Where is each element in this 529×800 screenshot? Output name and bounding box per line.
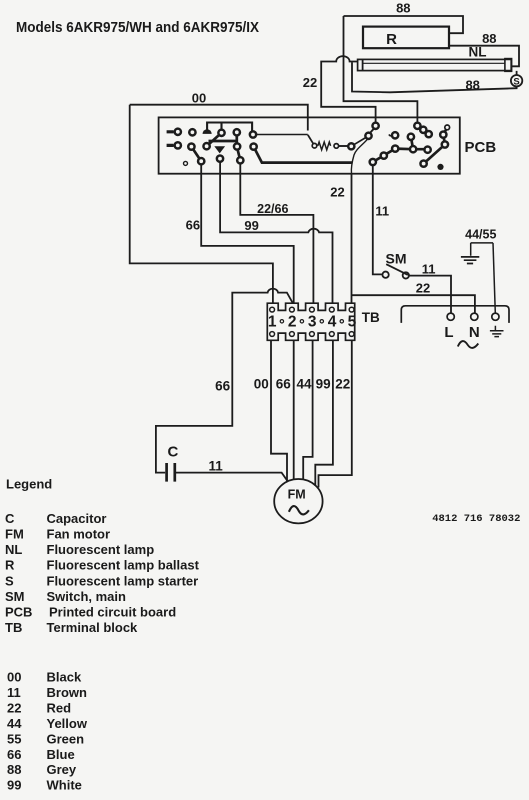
- svg-text:SM: SM: [386, 251, 407, 267]
- svg-text:Black: Black: [47, 670, 82, 685]
- svg-text:Yellow: Yellow: [47, 716, 88, 731]
- svg-text:Models 6AKR975/WH and 6AKR975/: Models 6AKR975/WH and 6AKR975/IX: [16, 19, 259, 36]
- svg-text:22: 22: [303, 75, 317, 90]
- svg-text:Grey: Grey: [47, 762, 77, 777]
- svg-text:88: 88: [7, 762, 21, 777]
- svg-text:88: 88: [482, 31, 496, 46]
- svg-text:TB: TB: [362, 310, 380, 325]
- svg-text:5: 5: [348, 314, 357, 331]
- svg-text:Blue: Blue: [47, 747, 75, 762]
- svg-text:44: 44: [296, 376, 312, 391]
- svg-text:55: 55: [7, 731, 21, 746]
- svg-text:66: 66: [186, 218, 200, 233]
- svg-text:Fan motor: Fan motor: [47, 527, 111, 542]
- svg-text:11: 11: [422, 262, 436, 277]
- svg-text:SM: SM: [5, 589, 25, 604]
- svg-text:Fluorescent lamp: Fluorescent lamp: [47, 542, 155, 557]
- svg-text:Terminal block: Terminal block: [47, 620, 139, 635]
- svg-text:88: 88: [396, 1, 410, 16]
- svg-text:1: 1: [268, 314, 277, 331]
- svg-text:99: 99: [244, 218, 258, 233]
- svg-text:NL: NL: [469, 45, 487, 60]
- svg-text:FM: FM: [288, 487, 306, 501]
- svg-text:Green: Green: [47, 731, 85, 746]
- svg-text:44/55: 44/55: [465, 228, 496, 242]
- svg-text:22: 22: [416, 280, 430, 295]
- svg-text:C: C: [168, 443, 179, 460]
- svg-text:Fluorescent lamp ballast: Fluorescent lamp ballast: [47, 558, 200, 573]
- svg-text:66: 66: [7, 747, 21, 762]
- svg-text:Switch, main: Switch, main: [47, 589, 127, 604]
- svg-text:99: 99: [316, 376, 331, 391]
- svg-text:11: 11: [7, 685, 21, 700]
- svg-text:L: L: [444, 324, 453, 341]
- svg-text:Legend: Legend: [6, 477, 52, 492]
- svg-text:R: R: [5, 558, 15, 573]
- svg-text:66: 66: [276, 376, 292, 391]
- svg-text:Fluorescent lamp starter: Fluorescent lamp starter: [47, 573, 199, 588]
- svg-text:FM: FM: [5, 527, 24, 542]
- svg-text:Brown: Brown: [47, 685, 88, 700]
- svg-text:S: S: [513, 76, 519, 87]
- svg-text:88: 88: [465, 77, 479, 92]
- svg-text:22/66: 22/66: [257, 202, 288, 216]
- svg-text:S: S: [5, 573, 14, 588]
- svg-text:00: 00: [7, 670, 21, 685]
- svg-text:N: N: [469, 324, 480, 341]
- svg-text:Capacitor: Capacitor: [47, 511, 107, 526]
- svg-text:PCB: PCB: [5, 605, 32, 620]
- svg-text:3: 3: [308, 314, 317, 331]
- svg-text:TB: TB: [5, 620, 22, 635]
- svg-text:4812 716 78032: 4812 716 78032: [432, 513, 520, 525]
- svg-text:44: 44: [7, 716, 22, 731]
- svg-text:99: 99: [7, 778, 21, 793]
- svg-text:4: 4: [328, 314, 337, 331]
- svg-text:PCB: PCB: [465, 139, 497, 156]
- svg-text:22: 22: [330, 184, 344, 199]
- svg-text:11: 11: [208, 458, 223, 473]
- svg-text:NL: NL: [5, 542, 22, 557]
- svg-text:R: R: [386, 31, 397, 48]
- svg-text:22: 22: [335, 376, 350, 391]
- svg-text:White: White: [47, 778, 82, 793]
- svg-text:Red: Red: [47, 701, 72, 716]
- svg-text:2: 2: [288, 314, 297, 331]
- svg-text:11: 11: [375, 204, 389, 219]
- svg-text:22: 22: [7, 701, 21, 716]
- svg-text:00: 00: [254, 376, 269, 391]
- svg-text:C: C: [5, 511, 15, 526]
- svg-text:Printed circuit board: Printed circuit board: [49, 605, 176, 620]
- svg-text:66: 66: [215, 379, 231, 394]
- svg-text:00: 00: [192, 90, 206, 105]
